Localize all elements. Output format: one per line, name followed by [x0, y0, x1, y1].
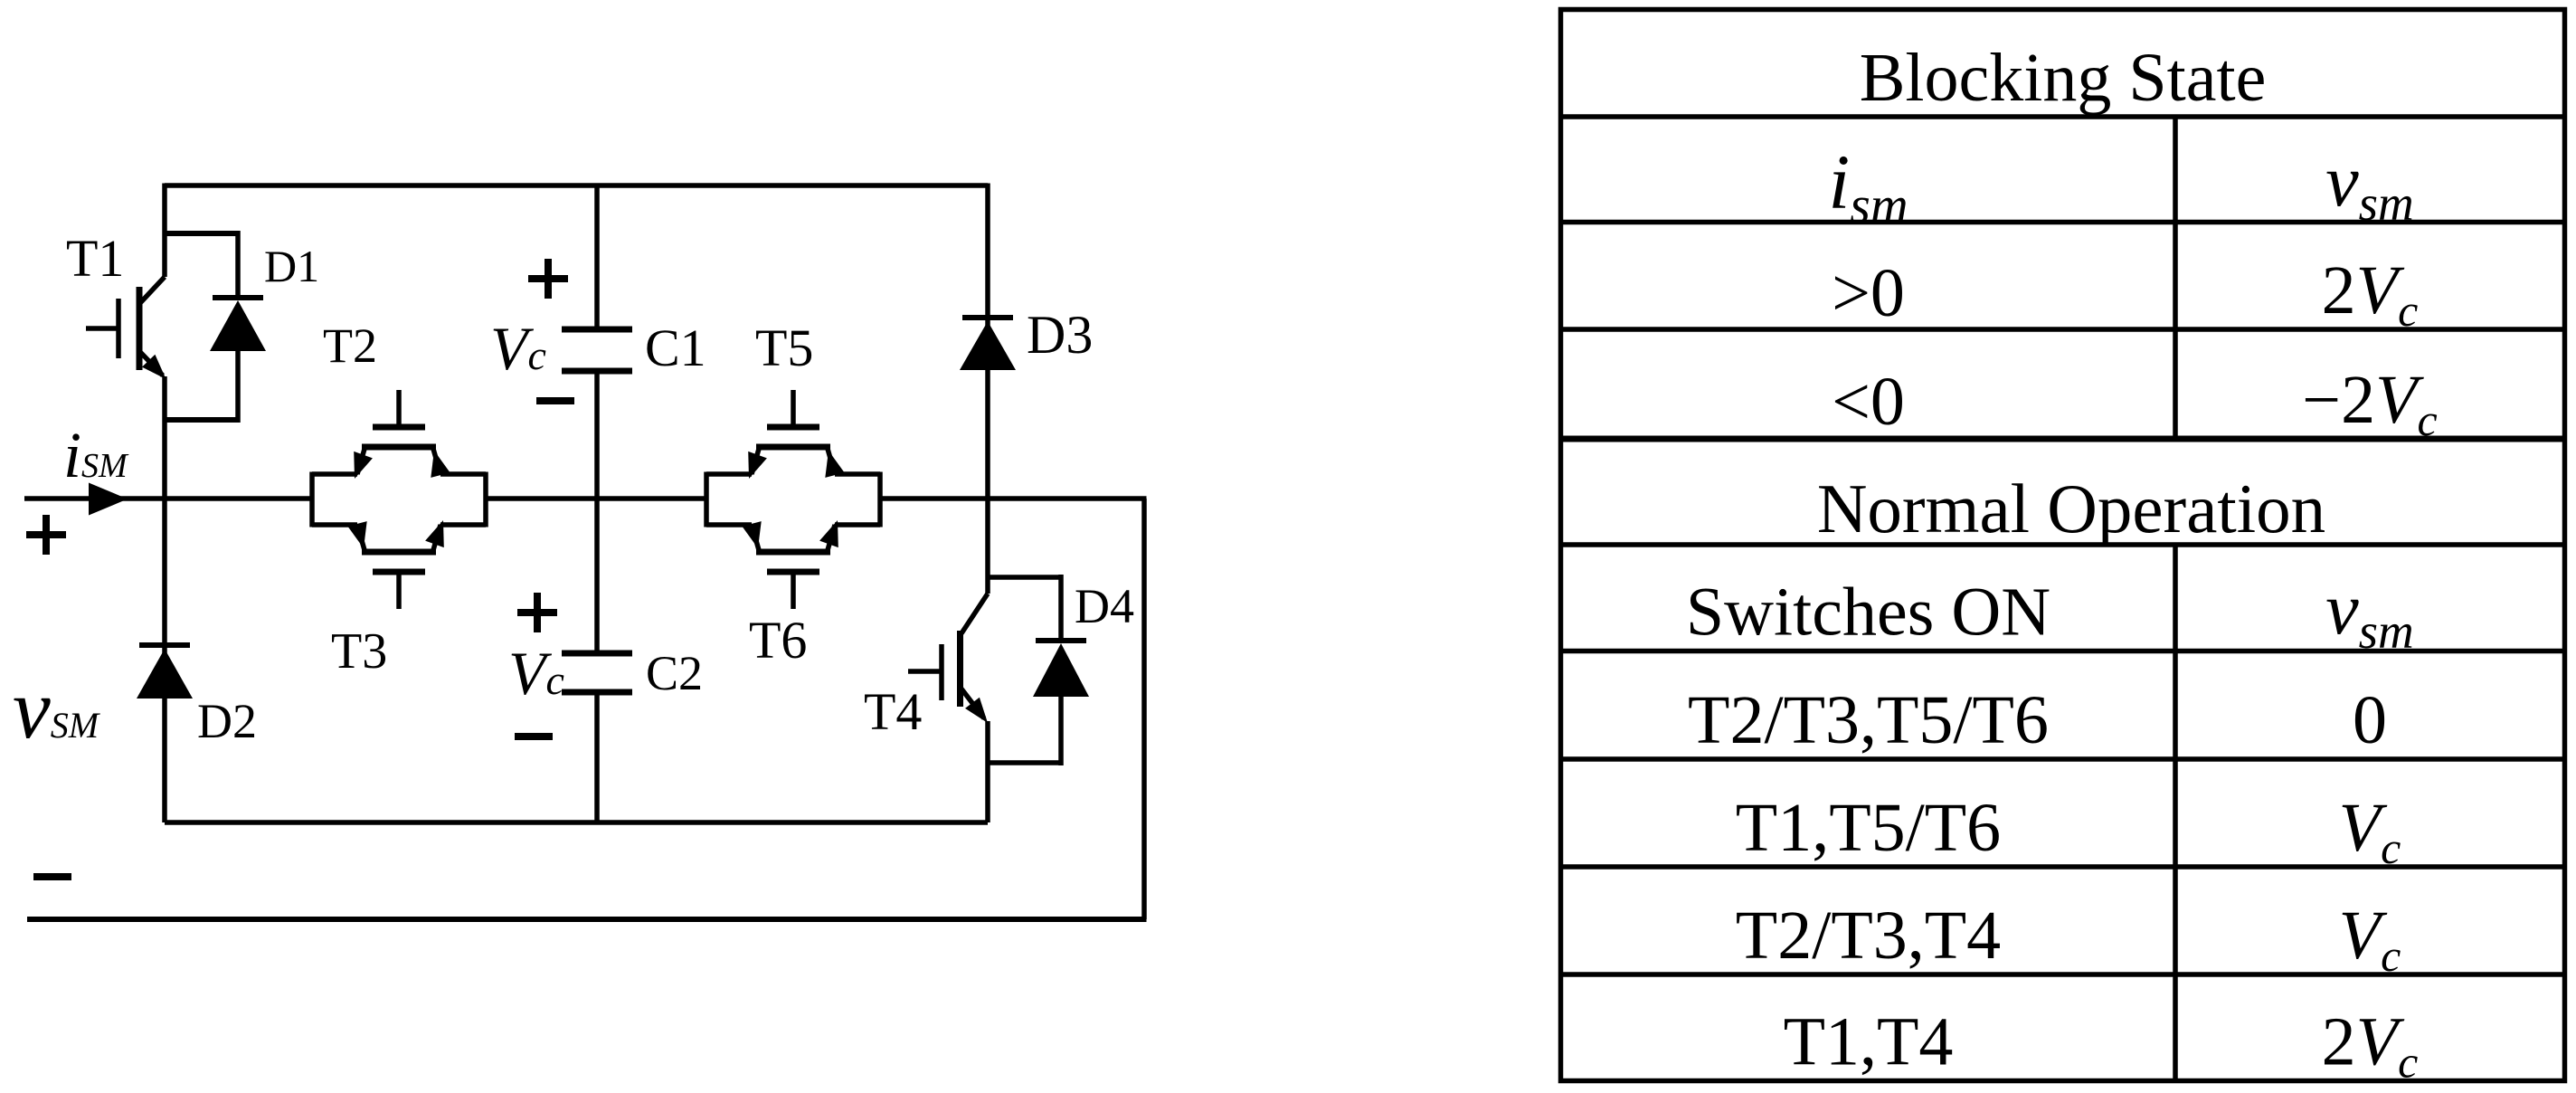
- svg-text:T1: T1: [66, 229, 124, 288]
- svg-text:T1,T5/T6: T1,T5/T6: [1736, 790, 2001, 866]
- svg-text:T2/T3,T5/T6: T2/T3,T5/T6: [1688, 682, 2049, 758]
- svg-text:2Vc: 2Vc: [2322, 252, 2419, 336]
- svg-text:T5: T5: [755, 318, 813, 377]
- svg-text:2Vc: 2Vc: [2322, 1004, 2419, 1088]
- svg-text:vsm: vsm: [2325, 567, 2414, 659]
- svg-text:Vc: Vc: [2339, 898, 2401, 981]
- svg-text:D1: D1: [264, 241, 319, 291]
- svg-text:Vc: Vc: [2339, 790, 2401, 873]
- svg-text:D2: D2: [197, 694, 257, 748]
- svg-text:<0: <0: [1832, 364, 1905, 440]
- svg-text:iSM: iSM: [63, 419, 129, 491]
- svg-text:T3: T3: [331, 623, 387, 680]
- svg-text:T2: T2: [323, 318, 377, 373]
- svg-text:Blocking State: Blocking State: [1860, 40, 2267, 116]
- svg-text:T2/T3,T4: T2/T3,T4: [1736, 898, 2001, 974]
- svg-text:Switches ON: Switches ON: [1686, 575, 2050, 651]
- svg-text:−2Vc: −2Vc: [2302, 362, 2438, 445]
- svg-text:vsm: vsm: [2325, 139, 2414, 231]
- svg-text:C2: C2: [646, 646, 703, 700]
- svg-text:T1,T4: T1,T4: [1784, 1004, 1954, 1080]
- svg-text:T4: T4: [864, 682, 922, 741]
- svg-text:Normal Operation: Normal Operation: [1817, 470, 2325, 547]
- svg-text:0: 0: [2353, 682, 2387, 758]
- svg-text:vSM: vSM: [13, 662, 101, 756]
- svg-text:Vc: Vc: [490, 314, 546, 383]
- svg-text:Vc: Vc: [508, 639, 564, 708]
- svg-text:>0: >0: [1832, 255, 1905, 331]
- svg-text:ism: ism: [1828, 138, 1908, 234]
- svg-text:T6: T6: [749, 611, 807, 670]
- svg-text:D3: D3: [1027, 305, 1093, 365]
- svg-text:C1: C1: [645, 318, 706, 377]
- svg-text:D4: D4: [1075, 579, 1134, 633]
